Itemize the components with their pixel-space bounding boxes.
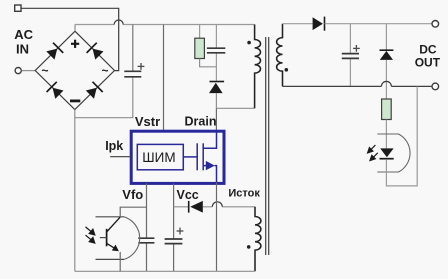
bridge plus mark [71, 40, 79, 48]
zener diode VD1 (pointing up) [380, 49, 394, 51]
capacitor C5 plates [165, 239, 183, 244]
phototransistor collector diagonal [107, 217, 121, 232]
hop of DC- rail over zener line [381, 81, 391, 86]
capacitor C4 plates [138, 238, 154, 243]
resistor R1 (green body) [195, 38, 205, 58]
hop of Vcc wire over source line [212, 202, 222, 207]
optocoupler phototransistor emitter stub [96, 258, 125, 260]
capacitor C1 plus sign [138, 63, 145, 70]
transformer auxiliary winding [255, 207, 261, 271]
svg-text:~: ~ [102, 64, 109, 78]
capacitor C2 plates [207, 48, 225, 53]
source (Исток) pin wire [216, 182, 218, 271]
wire bridge minus vertex down to common rail [74, 110, 76, 272]
AC input terminal circle [15, 68, 21, 74]
wire drain node to primary bottom [216, 107, 254, 109]
PWM controller IC box U1 [131, 131, 224, 183]
bridge diode D1 (top-left) [45, 43, 63, 61]
phototransistor emitter diagonal with arrow [107, 243, 118, 250]
Drain pin wire into IC box [215, 108, 217, 130]
svg-text:Drain: Drain [185, 114, 217, 128]
wire diode D5 to drain node [215, 93, 217, 108]
snubber capacitor C2 leads [215, 25, 217, 81]
phototransistor base bar [106, 229, 108, 247]
polarity dot secondary [285, 68, 289, 72]
optocoupler LED (pointing down) [380, 148, 393, 157]
bulk capacitor C1 top lead [132, 25, 134, 72]
Vstr pin wire from rail to IC box [163, 25, 165, 131]
transformer core [266, 37, 269, 255]
wire bridge plus vertex up to DC+ rail [74, 25, 76, 32]
svg-text:DC: DC [419, 42, 437, 56]
svg-text:ШИМ: ШИМ [142, 150, 175, 165]
bridge rectifier diamond [35, 31, 114, 109]
common ground rail (bottom) [75, 270, 255, 272]
Vcc supply wire from aux winding [174, 206, 255, 208]
polarity dot primary [247, 41, 251, 45]
DC+ rail (top horizontal) [75, 24, 255, 26]
output capacitor C3 leads [349, 24, 351, 87]
resistor R1 bottom lead [200, 59, 217, 67]
LED return wire to DC- rail [386, 86, 417, 185]
svg-text:IN: IN [16, 42, 29, 57]
capacitor C5 plus sign [177, 228, 184, 235]
bridge diode D2 (top-right) [87, 43, 105, 61]
Vfo pin wire [146, 183, 148, 271]
polarity dot auxiliary [247, 245, 251, 249]
phototransistor base stub [100, 237, 107, 239]
hop of rail over input wire [114, 20, 123, 25]
DC+ output rail [325, 23, 432, 25]
zener lead down through hop to R2 [385, 60, 387, 99]
capacitor C3 plus sign [353, 45, 360, 52]
Vcc pin wire [173, 183, 175, 271]
svg-text:Исток: Исток [228, 188, 260, 200]
wire collector to Vfo line [120, 207, 146, 217]
svg-text:OUT: OUT [415, 56, 441, 70]
zener diode VD1 top lead [385, 24, 387, 51]
capacitor C3 plates [342, 54, 359, 59]
resistor R1 snubber top lead [199, 25, 201, 39]
Ipk stub wire [110, 156, 131, 158]
svg-text:Vfo: Vfo [122, 187, 143, 202]
svg-text:Vcc: Vcc [177, 188, 199, 202]
transformer secondary winding [277, 24, 283, 87]
capacitor C1 plates [124, 71, 141, 77]
wire secondary top to rectifier diode [283, 23, 313, 25]
optocoupler body arc (transistor side) [124, 217, 140, 260]
svg-text:AC: AC [14, 27, 33, 42]
wire from square terminal to bridge right vertex [22, 8, 119, 70]
LED emission arrows [368, 145, 378, 161]
resistor R2 (green body) [382, 99, 392, 120]
R2 bottom lead [385, 120, 387, 149]
output rectifier diode D6 [313, 17, 323, 30]
AC input terminal square [15, 5, 21, 11]
MOSFET source arrow [206, 161, 215, 170]
Vcc diode D7 (pointing left) [188, 201, 190, 213]
transformer primary winding [255, 25, 261, 109]
bridge minus mark [70, 100, 80, 103]
wire AC circle to bridge left vertex [22, 70, 35, 72]
DC output terminal circle top [432, 21, 439, 28]
MOSFET Q1 inside IC [183, 132, 216, 182]
DC- output rail [283, 85, 432, 87]
svg-text:~: ~ [42, 64, 49, 78]
optocoupler phototransistor collector stub [96, 216, 125, 218]
bridge diode D4 (bottom-right) [85, 82, 103, 100]
photon arrows into base [86, 227, 95, 243]
svg-text:Vstr: Vstr [135, 114, 160, 129]
clamp diode D5 (pointing up) [210, 81, 225, 83]
DC output terminal circle bottom [432, 83, 439, 90]
wire emitter to ground rail [119, 252, 121, 271]
bulk capacitor C1 bottom lead to bridge minus line [75, 77, 133, 118]
svg-text:Ipk: Ipk [105, 139, 123, 153]
PWM sub-block [137, 144, 183, 169]
optocoupler body arc (LED side) [377, 134, 410, 172]
bridge diode D3 (bottom-left) [47, 82, 65, 100]
